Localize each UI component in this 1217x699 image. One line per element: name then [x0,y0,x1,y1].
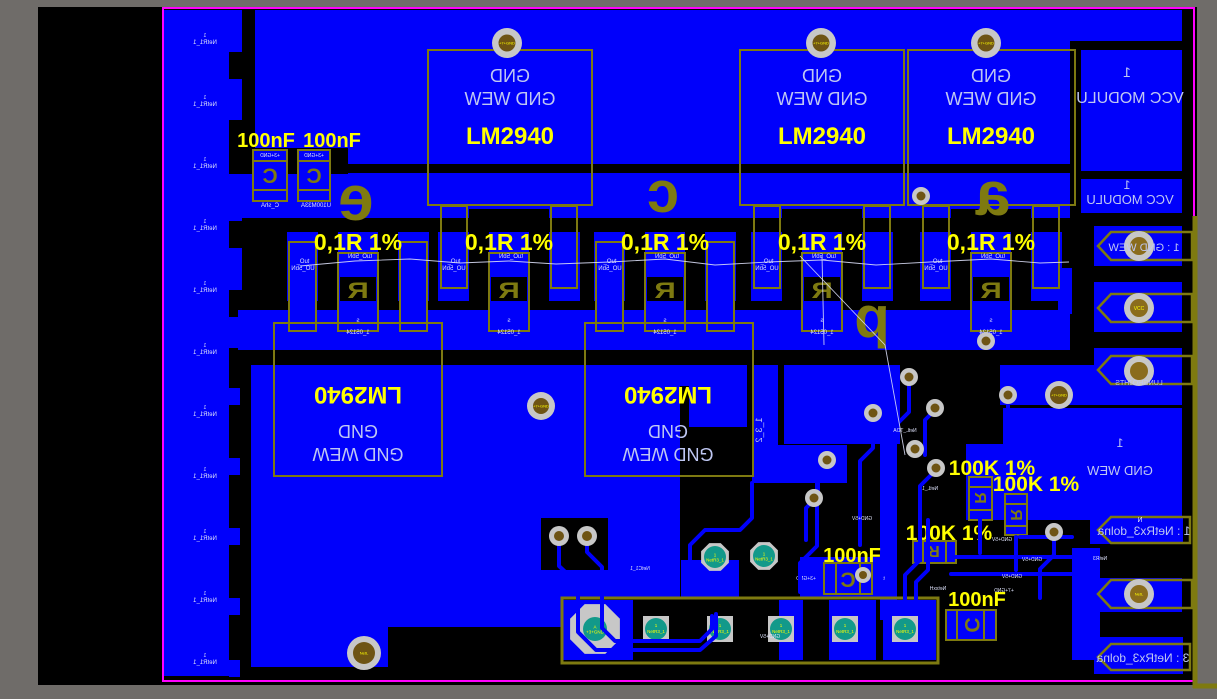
copper pour: VCC MODULU block 1 [1081,50,1182,171]
resistor R7 line2 [1005,525,1027,527]
svg-text:NetC1_1: NetC1_1 [630,566,650,572]
trace via 936-468 [905,470,936,610]
capacitor C1 island [253,150,287,201]
copper pour: lower-left plane [251,427,680,598]
op U3 LM2940 outline [908,50,1075,205]
svg-text:VCC MODULU: VCC MODULU [1086,192,1173,207]
svg-text:1 : NetRx3_dolna: 1 : NetRx3_dolna [1097,524,1190,538]
pin 4 pad [1124,579,1154,609]
svg-text:1: 1 [203,653,206,659]
capacitor C4 outline [946,610,996,640]
copper pour: left connector strip [164,10,229,676]
capacitor C1 bottom line [253,189,287,191]
svg-text:NetR3_1: NetR3_1 [647,629,665,634]
via 10 [912,187,930,205]
trace via 935-408 [925,410,935,455]
svg-text:1: 1 [203,405,206,411]
svg-text:NetR1_1: NetR1_1 [193,536,217,542]
copper pour: VCC MODULU block 2 [1081,179,1182,213]
svg-text:b: b [854,293,889,358]
body fill R2 [489,232,529,331]
via 2 [926,399,944,417]
svg-text:NetL_1: NetL_1 [922,486,938,492]
capacitor C1 outline [253,150,287,201]
capacitor C2 island [298,150,330,201]
left strip tab 2 [229,458,240,475]
body fill R4 [802,232,842,331]
svg-text:R: R [980,278,1002,303]
copper tab left of pin2 [1058,268,1072,314]
svg-text:R: R [498,278,520,303]
svg-text:1_05124: 1_05124 [653,330,677,336]
resistor body outline R2 [489,253,529,331]
capacitor C1 top line [253,160,287,162]
copper pad island right R5 [1031,232,1062,301]
black isolation stripe across top plane [239,164,1070,173]
op U2 LM2940 outline [740,50,904,205]
trace horiz right 1 [1020,535,1072,539]
svg-text:1: 1 [203,33,206,39]
svg-text:NetR1_1: NetR1_1 [193,412,217,418]
svg-text:1: 1 [203,591,206,597]
copper pad island right R4 [862,232,893,301]
trace vert 100K1 [978,517,982,553]
connector J1 outline [562,598,938,663]
op U1 LM2940 outline [428,50,592,205]
copper arm mid bottom [752,445,847,483]
body fill R5 [971,232,1011,331]
trace horiz right 2 [951,555,1072,559]
capacitor C2 top line [298,160,330,162]
copper pad island right R1 [398,232,429,301]
svg-text:UO_5bN: UO_5bN [924,266,947,272]
svg-text:e: e [338,162,374,234]
svg-text:NetR3_1: NetR3_1 [711,629,729,634]
copper column left of vias [880,365,897,620]
svg-text:NetR1_1: NetR1_1 [193,226,217,232]
svg-text:tuO_5bN: tuO_5bN [499,254,523,260]
svg-text:GND WEW: GND WEW [312,444,403,464]
trace mid column down [800,483,817,592]
svg-text:GND: GND [338,421,378,441]
notch in left strip 1 [229,52,242,79]
pad above U2 [806,28,836,58]
svg-text:+7+GND: +7+GND [978,41,994,46]
pin arrow bus bottom [1193,684,1217,689]
body fill R1 [338,232,378,331]
pin 1 pad [1124,231,1154,261]
svg-text:C: C [840,569,855,592]
connector J1 pad6 [892,616,918,642]
copper column right of connector [1072,548,1100,660]
pin arrow bus line [1193,216,1198,688]
svg-text:1: 1 [1116,436,1123,450]
svg-text:VCC MODULU: VCC MODULU [1076,90,1184,107]
connector J1 pad2 [643,616,669,642]
copper island for C3 100nF [800,557,890,598]
connector J1 pad4 [768,616,794,642]
black slot in lower plane [680,386,689,627]
copper pour: top-right band [1070,10,1182,41]
copper pad row: pin 1 [1094,226,1182,266]
pad P2 teal [750,542,778,570]
op U5 LM2940 outline [585,323,753,476]
svg-text:NetR1_1: NetR1_1 [193,660,217,666]
large via GND [1045,381,1073,409]
svg-text:1: 1 [1123,178,1130,192]
svg-text:c: c [647,160,679,225]
trace via 1054-532 [1040,534,1054,598]
left strip tab 5 [229,660,240,677]
leg outline right R5 [1033,206,1059,288]
svg-text:+7+GND: +7+GND [1051,393,1067,398]
svg-text:LM2940: LM2940 [624,381,712,408]
copper pour: lower-left plane lower lip [251,598,562,627]
copper pad island right R3 [705,232,736,301]
via on C3 [855,567,871,583]
trace from via A [559,543,716,650]
notch in left strip 2 [229,120,242,148]
svg-text:1: 1 [203,281,206,287]
trace from via B [587,543,712,641]
trace via 1008-395 [1006,397,1010,408]
notch in left strip 4 [229,290,242,317]
copper zone in J1 p4 [779,600,803,660]
copper pad row: pin 3 [1094,348,1182,400]
svg-text:LM2940: LM2940 [314,381,402,408]
copper pad island left R3 [594,232,625,301]
via 6 [805,489,823,507]
resistor body outline R4 [802,253,842,331]
net label arrow 3 [1098,644,1190,670]
leg outline right R4 [864,206,890,288]
copper zone in J1 p5 [829,600,876,660]
svg-text:NetR1_1: NetR1_1 [193,474,217,480]
resistor R7 glyph [1007,509,1024,521]
svg-text:tuO_5bN: tuO_5bN [348,254,372,260]
copper pad island right low R3 [707,242,734,331]
resistor R6 island [969,477,992,520]
svg-text:100nF: 100nF [237,130,295,152]
svg-text:+3+GND: +3+GND [304,153,324,159]
svg-text:NetR1_1: NetR1_1 [193,288,217,294]
copper pad island right low R1 [400,242,427,331]
svg-text:GND: GND [648,421,688,441]
op U4 LM2940 outline [274,323,442,476]
svg-text:N: N [1137,517,1142,524]
svg-text:tuO_5bN: tuO_5bN [812,254,836,260]
svg-text:UO_5bN: UO_5bN [755,266,778,272]
left strip tab 1 [229,388,240,405]
svg-text:100nF: 100nF [303,130,361,152]
trace via 814-498 [806,500,814,540]
svg-text:NetR3_1: NetR3_1 [896,629,914,634]
svg-text:NetxxH: NetxxH [929,586,946,592]
via 1 [900,368,918,386]
trace bundle right 1 [916,520,928,610]
svg-text:1_05124: 1_05124 [346,330,370,336]
ratsnest horizontal [300,259,1069,266]
resistor R6 line1 [969,486,992,488]
svg-text:GND+5V: GND+5V [851,516,872,522]
svg-text:1: 1 [203,343,206,349]
copper pour: left strip upper extension [229,10,242,348]
copper row: pin 4 [1094,578,1182,612]
via 4 [927,459,945,477]
copper pour: lower-left plane upper [251,365,747,427]
pad above U3 [971,28,1001,58]
svg-text:NetR3_1: NetR3_1 [706,558,724,563]
copper pad island left R4 [751,232,782,301]
svg-text:+3+GND: +3+GND [260,153,280,159]
copper pad island left R5 [920,232,951,301]
trace left of connector [690,483,752,560]
copper zone in J1 p6 [883,600,936,660]
svg-text:R: R [654,278,676,303]
body dark center R5 [973,277,1009,301]
black leg slot R2 [469,209,549,232]
svg-text:UO_5bN: UO_5bN [442,266,465,272]
svg-text:1 : GND WEW: 1 : GND WEW [1108,242,1180,254]
via 5 [818,451,836,469]
svg-text:LUNGHOJHTS: LUNGHOJHTS [1115,380,1163,387]
svg-text:NetL: NetL [360,651,369,656]
svg-text:s: s [508,318,511,324]
svg-text:0,1R 1%: 0,1R 1% [465,229,553,255]
svg-text:NetL: NetL [1135,592,1144,597]
svg-text:GND WEW: GND WEW [945,89,1036,109]
copper band above right pour [1000,365,1182,405]
black leg slot R5 [951,209,1031,232]
svg-text:C: C [960,617,983,632]
svg-text:C: C [306,165,321,188]
large via lower plane [527,392,555,420]
pad above U1 [492,28,522,58]
copper pour: band below resistor row [238,310,1070,350]
connector J1 pad5 [832,616,858,642]
svg-text:+7+GND: +7+GND [994,588,1014,594]
pad outline right R3 [707,242,734,331]
vertical net label 1_3_2 [754,417,764,442]
copper pad island left low R1 [289,242,316,331]
svg-text:R: R [971,492,988,504]
via island A [549,526,569,546]
svg-text:NetL_TDA: NetL_TDA [893,428,917,434]
net label arrow 1 [1098,517,1190,543]
svg-text:LM2940: LM2940 [947,123,1035,150]
svg-text:GND WEW: GND WEW [622,444,713,464]
copper row: net label 1 [1090,516,1183,544]
svg-text:GND: GND [971,66,1011,86]
leg outline left R2 [441,206,467,288]
copper pad row: pin 2 [1094,282,1182,332]
svg-text:NetR3_1: NetR3_1 [836,629,854,634]
ratsnest vertical [822,256,824,345]
svg-text:1_05124: 1_05124 [497,330,521,336]
svg-text:GND+5V: GND+5V [1021,557,1042,563]
svg-text:100K 1%: 100K 1% [993,473,1080,496]
svg-text:VCC: VCC [1134,306,1145,312]
copper zone in J1 left [562,600,633,660]
svg-text:UO_5bN: UO_5bN [291,266,314,272]
copper pour right of U5 [784,365,900,444]
trace horiz right 3 [951,572,1072,576]
pad outline left R3 [596,242,623,331]
pin 3 arrow [1098,356,1192,384]
copper feed into connector left [681,560,739,598]
svg-text:1_05124: 1_05124 [810,330,834,336]
trace via 873-413 [860,415,873,545]
copper row: bottom right [1094,637,1183,674]
svg-text:1: 1 [1123,64,1131,80]
black island with vias in lower plane [541,518,608,570]
svg-text:NetR1_1: NetR1_1 [193,598,217,604]
svg-text:R: R [811,278,833,303]
copper pour: lower-left extension [251,627,388,667]
capacitor C3 line1 [835,563,837,594]
pad outline left R1 [289,242,316,331]
svg-text:1: 1 [203,467,206,473]
pin 2 arrow [1098,294,1192,322]
trace via 827-460 [818,462,827,500]
left strip tab 3 [229,528,240,545]
capacitor C2 outline [298,150,330,201]
svg-text:GND WEW: GND WEW [776,89,867,109]
svg-text:C: C [262,165,277,188]
via 8 [999,386,1017,404]
via 3 [906,440,924,458]
capacitor C4 line1 [956,610,958,640]
trace via 909-377 [893,379,909,545]
leg outline right R2 [551,206,577,288]
capacitor C4 line2 [983,610,985,640]
resistor R7 island [1005,494,1027,535]
capacitor C2 bottom line [298,189,330,191]
resistor R6 glyph [971,492,988,504]
svg-text:s: s [990,318,993,324]
svg-text:1: 1 [203,95,206,101]
svg-text:NetR1_1: NetR1_1 [193,350,217,356]
svg-text:GND+5V: GND+5V [759,634,780,640]
svg-text:NetR3: NetR3 [1093,556,1107,562]
svg-text:UO_5bN: UO_5bN [598,266,621,272]
svg-text:C_shA: C_shA [261,203,279,209]
svg-text:GND WEW: GND WEW [1086,463,1152,478]
pad P1 teal [701,543,729,571]
black region around 100nF capacitors [238,148,348,174]
copper pad island left R2 [438,232,469,301]
svg-text:tuO_: tuO_ [296,259,310,265]
leg outline left R5 [923,206,949,288]
svg-text:1: 1 [203,219,206,225]
pin 2 pad [1124,293,1154,323]
copper pour: band under regulators [238,173,1070,218]
via 9 [1045,523,1063,541]
resistor R7 line1 [1005,503,1027,505]
svg-text:LM2940: LM2940 [466,123,554,150]
svg-text:LM2940: LM2940 [778,123,866,150]
svg-text:+7+GND: +7+GND [533,404,549,409]
capacitor C3 line2 [859,563,861,594]
black leg slot R4 [782,209,862,232]
body dark center R1 [340,277,376,301]
connector J1 pad3 [707,616,733,642]
black region left of 100nF labels [229,120,255,174]
svg-text:NetR3_1: NetR3_1 [755,557,773,562]
via island B [577,526,597,546]
resistor R6 line2 [969,509,992,511]
svg-text:GND+5V: GND+5V [991,537,1012,543]
left strip tab 4 [229,598,240,615]
capacitor C3 outline [824,563,872,594]
svg-text:+7+GND: +7+GND [813,41,829,46]
via 11 [977,332,995,350]
mount hole bottom-left [347,636,381,670]
svg-text:U100M33A: U100M33A [301,203,331,209]
copper pad island left R1 [287,232,318,301]
resistor R6 outline [969,477,992,520]
ratsnest diagonal [800,256,905,455]
capacitor C4 glyph [960,617,983,632]
copper column mid bottom [752,365,778,483]
resistor R8 line1 [922,541,924,563]
svg-text:R: R [1007,509,1024,521]
body fill R3 [645,232,685,331]
via 7 [864,404,882,422]
svg-text:1: 1 [203,157,206,163]
svg-text:3 : NetRx3_dolna: 3 : NetRx3_dolna [1096,651,1189,665]
pin 1 arrow [1098,232,1192,260]
pin 3 pad [1124,356,1154,386]
svg-text:GND WEW: GND WEW [464,89,555,109]
svg-text:GND: GND [490,66,530,86]
pin 4 arrow [1098,580,1192,608]
pad outline right R1 [400,242,427,331]
svg-text:GND: GND [802,66,842,86]
resistor body outline R5 [971,253,1011,331]
body dark center R2 [491,277,527,301]
svg-text:1: 1 [203,529,206,535]
svg-text:R: R [347,278,369,303]
resistor body outline R3 [645,253,685,331]
resistor R8 outline [913,541,956,563]
svg-text:0,1R 1%: 0,1R 1% [621,229,709,255]
resistor R8 island [913,541,956,563]
trace vert 100K2 [1014,537,1018,570]
resistor body outline R1 [338,253,378,331]
svg-text:NetR1_1: NetR1_1 [193,40,217,46]
svg-text:0,1R 1%: 0,1R 1% [947,229,1035,255]
resistor R7 outline [1005,494,1027,535]
connector J1 pad1 [570,604,620,654]
capacitor C4 island [946,610,996,640]
leg outline left R4 [754,206,780,288]
svg-text:+7+GND: +7+GND [499,41,515,46]
svg-text:NetR1_1: NetR1_1 [193,164,217,170]
copper pad island left low R3 [596,242,623,331]
svg-text:NetR1_1: NetR1_1 [193,102,217,108]
body dark center R4 [804,277,840,301]
svg-text:1_3_2: 1_3_2 [754,417,764,442]
svg-text:a: a [975,160,1010,229]
copper pad island right R2 [549,232,580,301]
copper pour: right mid plane [966,444,1182,520]
copper pour: right mid plane upper part [1003,408,1182,448]
notch in left strip 3 [229,221,242,248]
copper pour: top main plane [255,10,1070,164]
resistor R8 line2 [945,541,947,563]
svg-text:GND+5V: GND+5V [1001,574,1022,580]
